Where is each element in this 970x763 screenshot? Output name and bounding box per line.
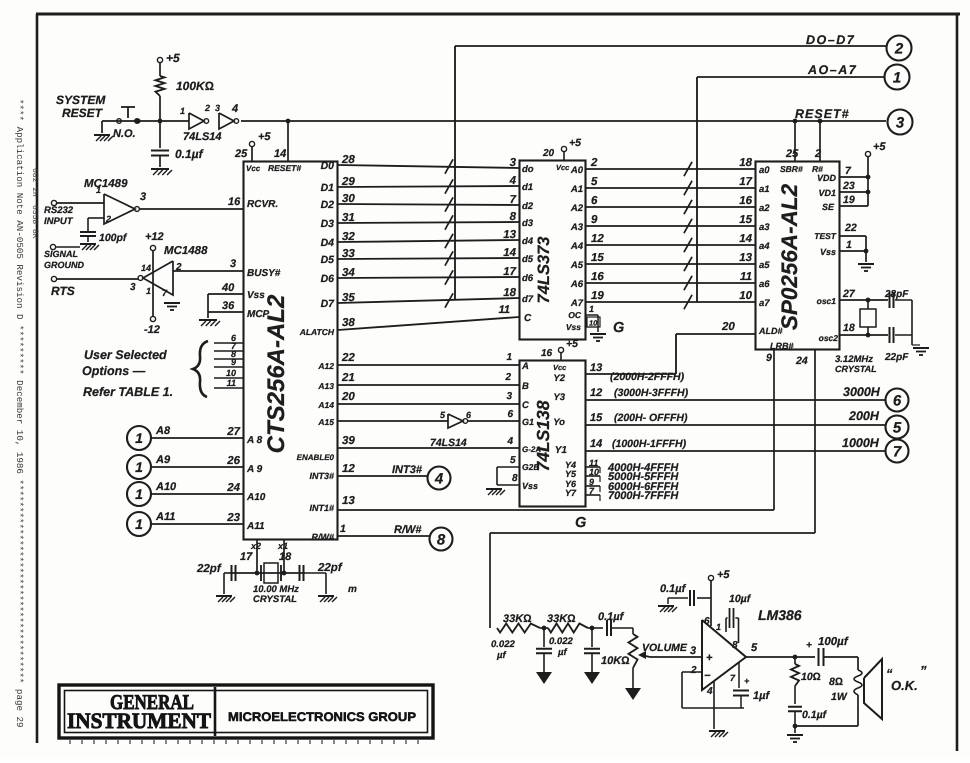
svg-text:a5: a5	[759, 260, 770, 271]
svg-text:+: +	[744, 676, 750, 686]
svg-text:+: +	[806, 640, 812, 651]
svg-text:+5: +5	[258, 131, 271, 143]
svg-text:R/W#: R/W#	[312, 532, 335, 542]
svg-text:D7: D7	[321, 298, 336, 310]
svg-text:RESET: RESET	[62, 106, 104, 120]
svg-text:D0: D0	[321, 160, 335, 172]
svg-text:20: 20	[542, 148, 555, 159]
svg-text:Vcc: Vcc	[556, 163, 570, 172]
svg-text:+5: +5	[166, 51, 180, 65]
svg-text:14: 14	[274, 148, 286, 160]
svg-text:4: 4	[509, 175, 517, 187]
svg-text:MICROELECTRONICS GROUP: MICROELECTRONICS GROUP	[228, 710, 416, 724]
svg-text:6: 6	[591, 195, 598, 207]
svg-text:A10: A10	[155, 481, 177, 493]
svg-text:34: 34	[342, 267, 355, 279]
svg-text:1: 1	[340, 523, 346, 535]
svg-text:d1: d1	[522, 182, 533, 193]
svg-text:CRYSTAL: CRYSTAL	[835, 364, 877, 374]
svg-text:AO–A7: AO–A7	[807, 63, 857, 77]
svg-text:28: 28	[341, 154, 355, 166]
svg-text:0.022: 0.022	[491, 639, 515, 650]
svg-text:0.1µf: 0.1µf	[175, 147, 204, 161]
svg-text:D5: D5	[321, 254, 335, 266]
svg-text:13: 13	[590, 362, 602, 374]
svg-text:−: −	[704, 670, 711, 682]
svg-text:SBR#: SBR#	[780, 164, 803, 174]
svg-text:d6: d6	[522, 273, 534, 284]
svg-text:14: 14	[503, 247, 516, 259]
svg-text:13: 13	[503, 229, 516, 241]
svg-text:3: 3	[690, 645, 696, 657]
svg-text:32: 32	[342, 231, 355, 243]
svg-text:RESET#: RESET#	[795, 107, 850, 121]
svg-text:D6: D6	[321, 273, 335, 285]
svg-text:12: 12	[342, 463, 355, 475]
svg-text:INT1#: INT1#	[309, 503, 334, 513]
svg-text:Y1: Y1	[555, 445, 568, 456]
svg-text:G1: G1	[522, 417, 534, 427]
svg-text:1: 1	[589, 304, 594, 314]
svg-text:D3: D3	[321, 218, 335, 230]
svg-text:7: 7	[510, 194, 517, 206]
svg-text:1: 1	[506, 352, 512, 363]
svg-text:0.1µf: 0.1µf	[802, 709, 828, 721]
svg-text:10: 10	[589, 319, 598, 328]
svg-text:B: B	[522, 381, 529, 392]
svg-text:33KΩ: 33KΩ	[547, 613, 576, 625]
svg-text:do: do	[522, 164, 534, 175]
svg-text:-12: -12	[144, 324, 160, 336]
svg-text:9: 9	[766, 352, 772, 364]
svg-text:3: 3	[140, 191, 146, 203]
svg-text:A 8: A 8	[246, 435, 263, 446]
svg-text:40: 40	[221, 282, 235, 294]
svg-text:User Selected: User Selected	[84, 348, 167, 362]
svg-text:G2B: G2B	[522, 462, 539, 472]
svg-text:Y5: Y5	[565, 469, 577, 479]
svg-text:22pF: 22pF	[884, 352, 909, 363]
svg-text:25: 25	[785, 148, 799, 160]
svg-text:3: 3	[506, 391, 512, 402]
svg-text:A0: A0	[570, 165, 584, 176]
svg-text:Yo: Yo	[553, 417, 565, 428]
svg-text:3: 3	[215, 103, 220, 113]
svg-text:3: 3	[230, 258, 236, 270]
svg-text:a3: a3	[759, 222, 770, 233]
svg-text:Vss: Vss	[820, 247, 836, 257]
svg-text:osc2: osc2	[819, 333, 839, 343]
svg-text:23: 23	[226, 512, 240, 524]
svg-text:C: C	[524, 313, 532, 324]
svg-text:36: 36	[222, 300, 235, 312]
svg-text:G: G	[575, 515, 586, 531]
svg-text:20: 20	[341, 391, 355, 403]
svg-text:d4: d4	[522, 236, 534, 247]
svg-text:0.1µf: 0.1µf	[660, 583, 687, 595]
svg-text:TEST: TEST	[814, 231, 837, 241]
svg-text:VDD: VDD	[817, 173, 837, 183]
svg-text:0.1µf: 0.1µf	[598, 611, 625, 623]
svg-text:11: 11	[227, 378, 236, 388]
svg-text:13: 13	[342, 495, 355, 507]
svg-text:**** Application Note AN-0505: **** Application Note AN-0505 Revision D…	[14, 99, 25, 728]
svg-text:+5: +5	[566, 338, 578, 350]
svg-text:27: 27	[226, 426, 240, 438]
svg-text:A10: A10	[246, 492, 266, 503]
svg-text:19: 19	[591, 290, 604, 302]
svg-text:100KΩ: 100KΩ	[176, 79, 214, 93]
svg-text:1: 1	[135, 459, 143, 475]
svg-text:ALD#: ALD#	[758, 326, 783, 336]
svg-text:10: 10	[739, 290, 752, 302]
svg-text:A7: A7	[570, 298, 584, 309]
svg-text:1: 1	[135, 516, 143, 532]
svg-text:1: 1	[135, 430, 143, 446]
svg-text:m: m	[348, 584, 357, 595]
svg-text:1: 1	[96, 185, 101, 195]
svg-text:11: 11	[499, 304, 510, 316]
svg-text:INPUT: INPUT	[44, 216, 74, 227]
svg-text:Vss: Vss	[247, 290, 265, 301]
svg-text:3: 3	[510, 157, 517, 169]
svg-text:74LS138: 74LS138	[533, 400, 553, 471]
svg-text:G-2A: G-2A	[522, 445, 541, 454]
svg-text:22: 22	[341, 352, 355, 364]
svg-text:9: 9	[231, 357, 236, 367]
svg-text:5: 5	[510, 455, 516, 466]
svg-text:8: 8	[512, 473, 518, 484]
svg-text:7000H-7FFFH: 7000H-7FFFH	[608, 490, 679, 502]
svg-text:6358 8R: 6358 8R	[30, 205, 39, 239]
svg-text:1: 1	[716, 622, 721, 632]
svg-text:Y2: Y2	[553, 373, 565, 384]
svg-text:24: 24	[795, 355, 808, 367]
svg-text:Options —: Options —	[82, 364, 146, 378]
svg-text:20: 20	[721, 321, 735, 333]
svg-text:22pf: 22pf	[317, 562, 343, 574]
svg-text:A3: A3	[570, 222, 584, 233]
svg-text:d5: d5	[522, 254, 534, 265]
svg-text:Vss: Vss	[566, 322, 581, 332]
svg-text:2: 2	[105, 214, 111, 224]
svg-text:74LS14: 74LS14	[183, 131, 222, 143]
svg-text:16: 16	[591, 271, 604, 283]
svg-text:MC1489: MC1489	[84, 178, 128, 190]
svg-text:4: 4	[706, 686, 713, 697]
svg-text:15: 15	[591, 252, 604, 264]
svg-text:2: 2	[894, 40, 904, 57]
svg-text:8: 8	[437, 531, 446, 548]
svg-text:N.O.: N.O.	[113, 128, 136, 140]
svg-text:14: 14	[141, 263, 151, 273]
svg-text:O.K.: O.K.	[891, 678, 918, 693]
svg-text:4: 4	[231, 103, 238, 115]
svg-text:(2000H-2FFFH): (2000H-2FFFH)	[610, 371, 685, 383]
svg-text:INT3#: INT3#	[392, 464, 423, 476]
svg-text:RTS: RTS	[51, 284, 75, 298]
svg-text:ALATCH: ALATCH	[299, 327, 335, 337]
svg-text:7: 7	[893, 443, 902, 460]
svg-text:A1: A1	[570, 184, 583, 195]
svg-text:+5: +5	[717, 569, 730, 581]
svg-text:INT3#: INT3#	[309, 471, 334, 481]
svg-text:682 2H: 682 2H	[30, 168, 39, 197]
svg-text:26: 26	[226, 455, 240, 467]
svg-text:RS232: RS232	[44, 205, 74, 216]
svg-text:15: 15	[590, 412, 603, 424]
svg-text:+12: +12	[145, 231, 164, 243]
svg-text:2: 2	[814, 148, 821, 160]
svg-text:3: 3	[896, 114, 905, 131]
svg-text:27: 27	[842, 288, 856, 300]
svg-text:16: 16	[228, 196, 241, 208]
svg-text:18: 18	[503, 287, 516, 299]
svg-text:A4: A4	[570, 241, 584, 252]
svg-text:D1: D1	[321, 182, 335, 194]
svg-text:100µf: 100µf	[818, 636, 849, 648]
svg-text:OC: OC	[568, 310, 582, 320]
svg-text:µf: µf	[496, 650, 506, 661]
svg-text:17: 17	[739, 176, 752, 188]
svg-text:ENABLE0: ENABLE0	[297, 453, 335, 462]
svg-text:(200H- OFFFH): (200H- OFFFH)	[614, 412, 688, 424]
svg-text:D2: D2	[321, 199, 335, 211]
svg-text:x1: x1	[277, 541, 288, 551]
svg-text:74LS373: 74LS373	[535, 237, 553, 304]
svg-text:a1: a1	[759, 184, 770, 195]
svg-text:2: 2	[690, 665, 697, 676]
svg-text:33: 33	[342, 248, 355, 260]
svg-text:+: +	[706, 652, 713, 664]
svg-text:25: 25	[234, 148, 248, 160]
svg-text:6: 6	[893, 392, 902, 409]
svg-text:RCVR.: RCVR.	[247, 199, 278, 210]
svg-text:Y7: Y7	[565, 488, 577, 498]
svg-text:10KΩ: 10KΩ	[601, 655, 630, 667]
svg-text:1: 1	[180, 106, 185, 116]
svg-text:0.022: 0.022	[549, 636, 573, 647]
svg-text:4: 4	[434, 470, 444, 487]
svg-text:10: 10	[226, 368, 236, 378]
svg-text:+5: +5	[569, 137, 581, 149]
svg-text:A5: A5	[570, 260, 584, 271]
svg-text:D4: D4	[321, 237, 335, 249]
svg-text:d7: d7	[522, 294, 534, 305]
svg-text:17: 17	[503, 266, 516, 278]
svg-text:µf: µf	[557, 647, 567, 658]
svg-text:1µf: 1µf	[753, 690, 770, 702]
svg-text:22pf: 22pf	[196, 563, 222, 575]
svg-text:A11: A11	[246, 521, 265, 532]
svg-text:DO–D7: DO–D7	[806, 33, 855, 47]
svg-text:A13: A13	[317, 381, 334, 391]
svg-text:RESET#: RESET#	[268, 163, 301, 173]
svg-text:A: A	[521, 361, 529, 372]
svg-text:CRYSTAL: CRYSTAL	[253, 594, 297, 605]
svg-text:1: 1	[146, 286, 151, 296]
svg-text:14: 14	[590, 438, 602, 450]
svg-text:21: 21	[341, 372, 355, 384]
svg-text:Vcc: Vcc	[246, 164, 261, 173]
svg-text:24: 24	[226, 482, 240, 494]
svg-text:8: 8	[510, 211, 517, 223]
svg-text:23: 23	[842, 180, 855, 192]
svg-text:1000H: 1000H	[842, 436, 880, 450]
svg-text:10µf: 10µf	[729, 593, 752, 605]
svg-text:A15: A15	[317, 417, 334, 427]
svg-text:MC1488: MC1488	[164, 245, 208, 257]
svg-text:10: 10	[589, 467, 599, 477]
svg-text:2: 2	[204, 103, 210, 113]
svg-text:2: 2	[590, 157, 598, 169]
svg-text:A9: A9	[155, 454, 171, 466]
svg-text:Vcc: Vcc	[553, 363, 567, 372]
svg-text:3: 3	[130, 282, 136, 293]
svg-text:31: 31	[342, 212, 355, 224]
svg-text:R/W#: R/W#	[394, 524, 422, 536]
svg-text:14: 14	[739, 233, 752, 245]
svg-text:18: 18	[279, 551, 292, 563]
svg-text:SE: SE	[822, 202, 835, 212]
svg-text:d3: d3	[522, 218, 534, 229]
svg-text:38: 38	[342, 317, 355, 329]
svg-text:A12: A12	[317, 361, 334, 371]
svg-text:A 9: A 9	[246, 464, 263, 475]
svg-text:BUSY#: BUSY#	[247, 268, 281, 279]
svg-text:A14: A14	[317, 400, 334, 410]
svg-text:16: 16	[541, 348, 553, 359]
svg-text:d2: d2	[522, 201, 534, 212]
svg-text:1: 1	[846, 239, 852, 251]
svg-text:A6: A6	[570, 279, 584, 290]
svg-text:8Ω: 8Ω	[829, 676, 843, 688]
svg-text:+5: +5	[873, 141, 886, 153]
svg-text:10Ω: 10Ω	[801, 671, 821, 683]
svg-text:a4: a4	[759, 241, 770, 252]
svg-text:30: 30	[342, 193, 355, 205]
svg-text:22: 22	[844, 222, 857, 234]
svg-text:Vss: Vss	[522, 481, 538, 491]
svg-text:15: 15	[739, 214, 752, 226]
svg-text:16: 16	[739, 195, 752, 207]
svg-text:2: 2	[504, 372, 511, 383]
svg-text:5: 5	[893, 419, 902, 436]
svg-text:11: 11	[740, 271, 752, 283]
svg-text:osc1: osc1	[817, 296, 837, 306]
svg-text:19: 19	[843, 194, 855, 206]
svg-text:12: 12	[591, 233, 604, 245]
svg-text:Refer TABLE 1.: Refer TABLE 1.	[83, 385, 173, 399]
svg-text:13: 13	[739, 252, 752, 264]
svg-text:a0: a0	[759, 165, 770, 176]
svg-text:100pf: 100pf	[99, 232, 128, 244]
svg-text:SIGNAL: SIGNAL	[44, 249, 78, 259]
svg-text:6: 6	[704, 616, 710, 627]
svg-text:200H: 200H	[848, 409, 880, 423]
svg-text:39: 39	[342, 435, 355, 447]
svg-text:4: 4	[506, 436, 513, 447]
svg-text:GROUND: GROUND	[44, 260, 84, 270]
svg-text:3000H: 3000H	[843, 385, 881, 399]
svg-text:VD1: VD1	[818, 188, 836, 198]
svg-text:17: 17	[240, 551, 253, 563]
svg-text:Y3: Y3	[553, 392, 565, 403]
svg-text:A8: A8	[155, 425, 171, 437]
svg-text:x2: x2	[250, 541, 261, 551]
svg-text:5: 5	[751, 642, 758, 654]
svg-text:28pF: 28pF	[884, 289, 909, 300]
svg-text:18: 18	[843, 322, 855, 334]
svg-text:1: 1	[135, 486, 143, 502]
svg-text:1W: 1W	[831, 691, 848, 703]
svg-text:LM386: LM386	[758, 607, 802, 623]
svg-text:(1000H-1FFFH): (1000H-1FFFH)	[612, 438, 687, 450]
svg-text:G: G	[613, 320, 624, 336]
svg-text:5: 5	[591, 176, 598, 188]
svg-text:29: 29	[341, 176, 355, 188]
svg-text:SYSTEM: SYSTEM	[56, 93, 106, 107]
svg-text:9: 9	[591, 214, 598, 226]
svg-text:a2: a2	[759, 203, 770, 214]
svg-text:VOLUME: VOLUME	[642, 642, 688, 654]
svg-text:18: 18	[739, 157, 752, 169]
svg-text:A2: A2	[570, 203, 584, 214]
svg-text:SP0256A-AL2: SP0256A-AL2	[777, 183, 802, 330]
svg-text:8: 8	[732, 640, 738, 651]
svg-text:a6: a6	[759, 279, 770, 290]
svg-text:A11: A11	[155, 511, 175, 523]
svg-text:MCP: MCP	[247, 309, 270, 320]
svg-text:35: 35	[342, 292, 355, 304]
svg-text:1: 1	[893, 69, 901, 86]
svg-text:”: ”	[920, 663, 927, 678]
svg-text:(3000H-3FFFH): (3000H-3FFFH)	[614, 387, 689, 399]
svg-text:C: C	[522, 400, 529, 411]
svg-text:INSTRUMENT: INSTRUMENT	[67, 708, 211, 733]
svg-text:a7: a7	[759, 298, 770, 309]
svg-text:12: 12	[590, 387, 602, 399]
svg-text:33KΩ: 33KΩ	[503, 613, 532, 625]
svg-text:6: 6	[507, 409, 513, 420]
